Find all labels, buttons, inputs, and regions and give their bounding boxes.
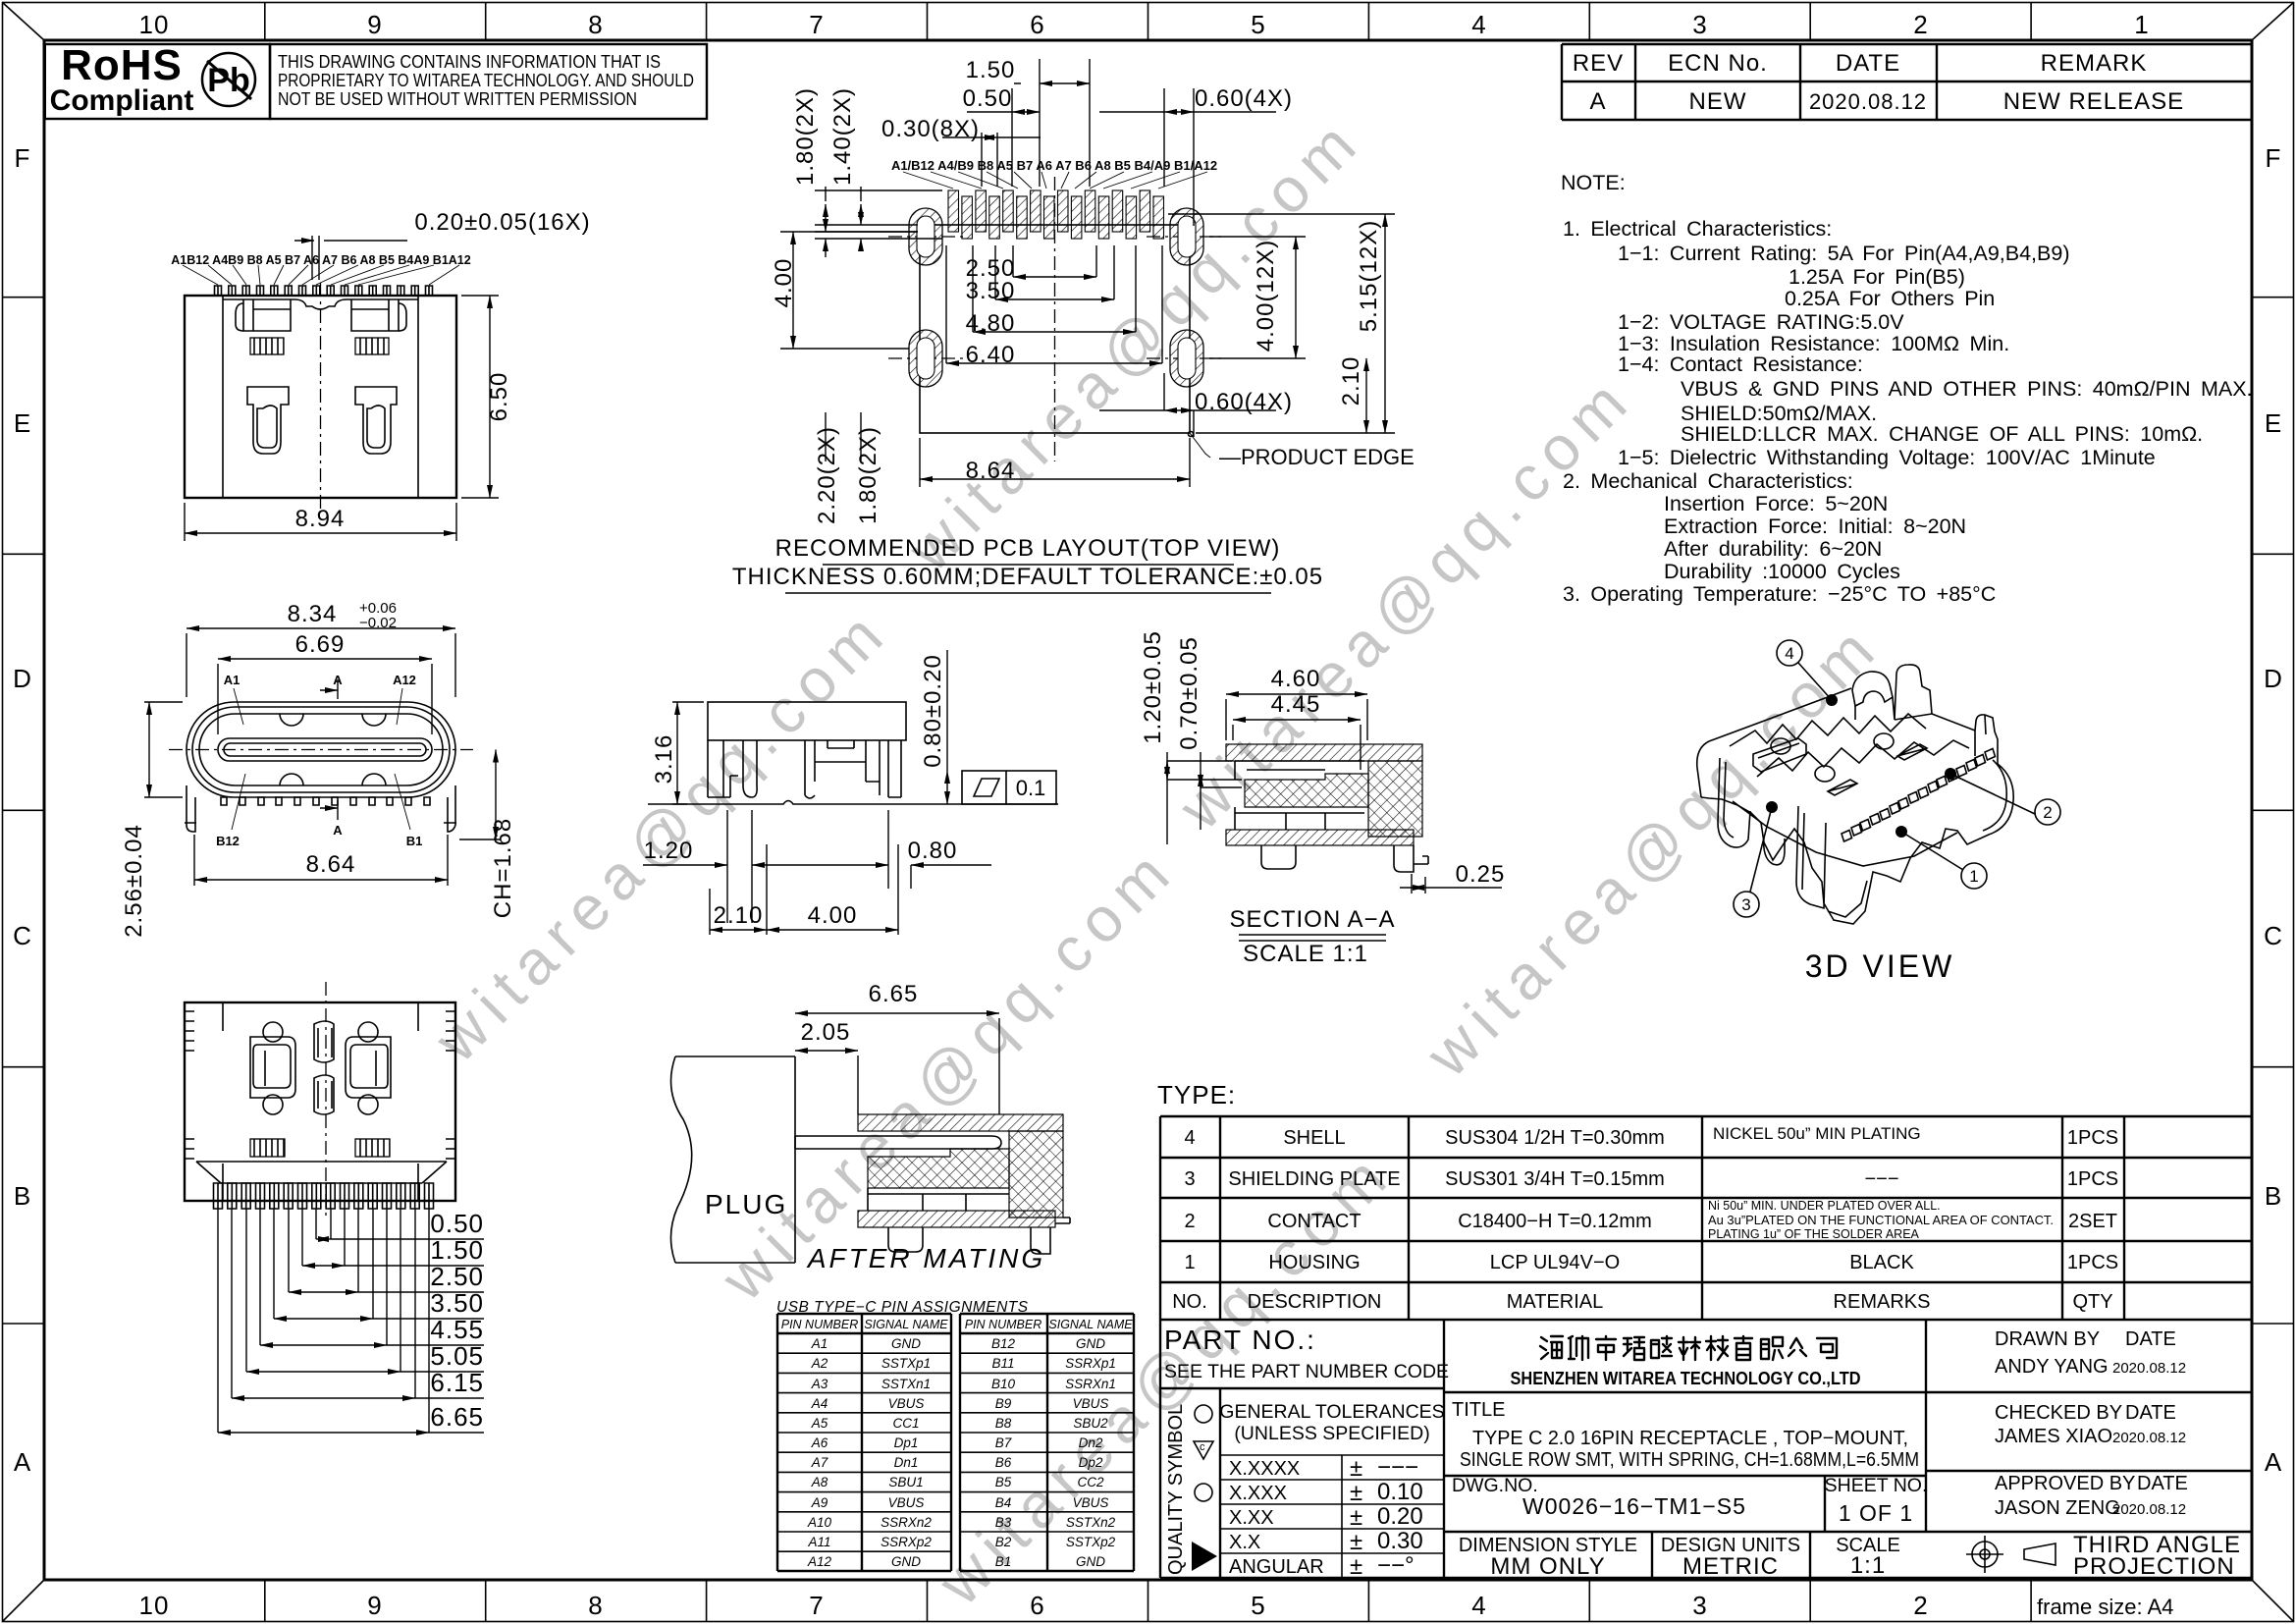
svg-text:B1: B1 [406,834,423,848]
svg-text:6.15: 6.15 [430,1368,484,1397]
svg-text:±: ± [1350,1455,1362,1482]
svg-text:SSTXn2: SSTXn2 [1066,1515,1116,1530]
svg-text:(UNLESS SPECIFIED): (UNLESS SPECIFIED) [1234,1423,1429,1444]
svg-text:6.65: 6.65 [869,981,919,1007]
svg-text:X.XX: X.XX [1229,1507,1274,1529]
svg-text:NEW RELEASE: NEW RELEASE [2003,88,2184,115]
svg-text:TYPE:: TYPE: [1157,1080,1236,1110]
svg-text:0.1: 0.1 [1016,776,1046,800]
svg-text:3.50: 3.50 [430,1288,484,1318]
svg-text:3: 3 [1184,1168,1195,1190]
svg-text:B8: B8 [995,1416,1012,1431]
svg-text:NOTE:: NOTE: [1561,171,1626,194]
svg-text:B12: B12 [216,834,240,848]
svg-text:SIGNAL NAME: SIGNAL NAME [864,1318,948,1331]
svg-text:1:1: 1:1 [1850,1552,1886,1579]
svg-text:SHENZHEN WITAREA TECHNOLOGY CO: SHENZHEN WITAREA TECHNOLOGY CO.,LTD [1511,1369,1861,1388]
svg-text:4.45: 4.45 [1271,691,1321,718]
svg-text:X.XXX: X.XXX [1229,1483,1287,1504]
svg-text:SSTXp2: SSTXp2 [1066,1535,1116,1549]
svg-text:1PCS: 1PCS [2067,1168,2118,1190]
svg-text:A11: A11 [807,1535,830,1549]
svg-text:A: A [14,1447,31,1477]
svg-text:NOT BE USED WITHOUT WRITTEN PE: NOT BE USED WITHOUT WRITTEN PERMISSION [278,89,637,109]
svg-text:TITLE: TITLE [1452,1399,1505,1421]
svg-text:2.56±0.04: 2.56±0.04 [121,824,147,938]
svg-text:CC1: CC1 [892,1416,919,1431]
svg-text:GND: GND [1076,1336,1105,1351]
svg-text:MATERIAL: MATERIAL [1507,1291,1604,1313]
svg-text:0.30: 0.30 [1377,1528,1423,1554]
svg-text:A6: A6 [811,1435,828,1450]
svg-text:SBU2: SBU2 [1073,1416,1108,1431]
svg-text:6: 6 [1030,10,1044,39]
svg-text:B2: B2 [995,1535,1012,1549]
svg-text:REV: REV [1573,50,1624,77]
svg-text:5.05: 5.05 [430,1341,484,1371]
svg-text:SHIELD:LLCR MAX. CHANGE OF ALL: SHIELD:LLCR MAX. CHANGE OF ALL PINS: 10m… [1681,422,2203,446]
svg-text:±: ± [1350,1553,1362,1580]
svg-text:1.80(2X): 1.80(2X) [855,426,881,524]
svg-text:±: ± [1350,1529,1362,1555]
svg-text:DATE: DATE [1836,50,1900,77]
svg-text:DESCRIPTION: DESCRIPTION [1248,1291,1382,1313]
svg-text:0.60(4X): 0.60(4X) [1195,85,1293,112]
svg-text:−−−: −−− [1377,1454,1418,1481]
svg-text:METRIC: METRIC [1682,1553,1779,1580]
svg-text:c: c [1200,1441,1205,1453]
svg-text:SBU1: SBU1 [888,1475,923,1489]
svg-text:DRAWN BY: DRAWN BY [1995,1328,2100,1350]
svg-text:A9: A9 [811,1495,828,1510]
svg-text:6: 6 [1030,1591,1044,1620]
svg-text:A5: A5 [811,1416,828,1431]
svg-text:VBUS: VBUS [1073,1495,1109,1510]
svg-text:8: 8 [588,1591,603,1620]
svg-text:SEE THE PART NUMBER CODE: SEE THE PART NUMBER CODE [1164,1361,1449,1382]
svg-text:−−−: −−− [1864,1168,1898,1190]
svg-text:CONTACT: CONTACT [1267,1211,1361,1232]
svg-text:1 OF 1: 1 OF 1 [1839,1500,1913,1526]
svg-text:D: D [2264,664,2283,693]
svg-text:1: 1 [1184,1252,1195,1273]
svg-text:0.20: 0.20 [1377,1503,1423,1530]
svg-text:Dp1: Dp1 [894,1435,919,1450]
svg-text:0.60(4X): 0.60(4X) [1195,389,1293,415]
svg-text:PLUG: PLUG [705,1189,787,1219]
svg-text:1PCS: 1PCS [2067,1127,2118,1149]
svg-text:2: 2 [2043,803,2052,822]
svg-text:1−2: VOLTAGE RATING:5.0V: 1−2: VOLTAGE RATING:5.0V [1618,310,1904,334]
svg-text:GND: GND [891,1336,921,1351]
svg-text:AFTER MATING: AFTER MATING [806,1243,1045,1273]
svg-text:A4: A4 [811,1396,828,1411]
svg-text:W0026−16−TM1−S5: W0026−16−TM1−S5 [1522,1493,1746,1519]
svg-text:SSRXn1: SSRXn1 [1065,1377,1116,1391]
svg-text:6.65: 6.65 [430,1402,484,1432]
svg-text:SUS301 3/4H T=0.15mm: SUS301 3/4H T=0.15mm [1445,1168,1665,1190]
svg-text:3: 3 [1692,1591,1707,1620]
svg-text:VBUS: VBUS [1073,1396,1109,1411]
svg-text:NO.: NO. [1172,1291,1207,1313]
svg-text:5.15(12X): 5.15(12X) [1356,220,1382,332]
svg-text:1: 1 [1969,867,1978,886]
svg-text:B11: B11 [991,1356,1014,1371]
svg-text:DATE: DATE [2125,1328,2176,1350]
svg-text:2.20(2X): 2.20(2X) [814,426,840,524]
svg-text:E: E [2265,408,2282,438]
svg-text:RoHS: RoHS [61,41,183,89]
svg-text:ECN No.: ECN No. [1668,50,1768,77]
svg-text:2: 2 [1913,1591,1928,1620]
svg-text:5: 5 [1251,1591,1265,1620]
svg-text:1.20±0.05: 1.20±0.05 [1140,630,1166,744]
svg-text:SHELL: SHELL [1283,1127,1345,1149]
svg-text:A12: A12 [393,673,416,687]
svg-text:PROJECTION: PROJECTION [2073,1553,2235,1580]
svg-text:3: 3 [1692,10,1707,39]
svg-text:6.69: 6.69 [295,631,346,658]
svg-text:ANDY YANG: ANDY YANG [1995,1356,2109,1378]
svg-text:2020.08.12: 2020.08.12 [2112,1501,2186,1518]
svg-text:4.00(12X): 4.00(12X) [1253,240,1279,352]
svg-text:A1/B12 A4/B9 B8 A5 B7 A6 A7 B6: A1/B12 A4/B9 B8 A5 B7 A6 A7 B6 A8 B5 B4/… [891,158,1217,173]
svg-text:0.50: 0.50 [430,1209,484,1238]
svg-text:8.64: 8.64 [306,851,356,878]
svg-text:9: 9 [367,1591,382,1620]
svg-text:4: 4 [1471,10,1486,39]
svg-text:4: 4 [1184,1127,1195,1149]
svg-text:SHEET NO.: SHEET NO. [1825,1475,1928,1496]
svg-text:B3: B3 [995,1515,1012,1530]
svg-text:PIN NUMBER: PIN NUMBER [965,1318,1041,1331]
svg-text:−−°: −−° [1377,1552,1415,1579]
svg-text:1.80(2X): 1.80(2X) [792,87,819,186]
svg-text:VBUS & GND PINS AND OTHER PINS: VBUS & GND PINS AND OTHER PINS: 40mΩ/PIN… [1681,377,2253,401]
svg-text:—PRODUCT EDGE: —PRODUCT EDGE [1219,445,1415,469]
svg-text:4.55: 4.55 [430,1315,484,1344]
svg-text:SSRXp1: SSRXp1 [1065,1356,1116,1371]
svg-text:CC2: CC2 [1077,1475,1103,1489]
svg-text:PROPRIETARY TO WITAREA TECHNOL: PROPRIETARY TO WITAREA TECHNOLOGY. AND S… [278,71,694,90]
svg-text:1.50: 1.50 [966,57,1016,83]
svg-text:HOUSING: HOUSING [1268,1252,1360,1273]
svg-text:2.10: 2.10 [714,902,764,929]
svg-text:7: 7 [809,1591,824,1620]
svg-text:PART NO.:: PART NO.: [1164,1325,1316,1355]
svg-text:2.05: 2.05 [801,1019,851,1046]
svg-text:0.80±0.20: 0.80±0.20 [920,654,946,768]
svg-text:SSTXp1: SSTXp1 [881,1356,931,1371]
svg-text:Insertion Force: 5~20N: Insertion Force: 5~20N [1664,492,1888,515]
svg-text:2.10: 2.10 [1338,356,1364,406]
svg-text:±: ± [1350,1480,1362,1506]
svg-text:A: A [2265,1447,2282,1477]
svg-text:1−4: Contact Resistance:: 1−4: Contact Resistance: [1618,352,1863,376]
svg-text:0.25: 0.25 [1456,861,1506,888]
svg-text:0.30(8X): 0.30(8X) [881,116,980,142]
svg-text:GND: GND [891,1554,921,1569]
svg-text:1−5: Dielectric Withstanding V: 1−5: Dielectric Withstanding Voltage: 10… [1618,446,2156,469]
svg-text:0.10: 0.10 [1377,1479,1423,1505]
svg-text:BLACK: BLACK [1849,1252,1914,1273]
svg-text:JASON ZENG: JASON ZENG [1995,1497,2120,1519]
svg-text:5: 5 [1251,10,1265,39]
svg-text:2: 2 [1913,10,1928,39]
svg-text:4.00: 4.00 [808,902,858,929]
svg-text:2.50: 2.50 [430,1262,484,1291]
svg-text:F: F [2266,143,2282,173]
svg-text:A12: A12 [807,1554,832,1569]
svg-text:DATE: DATE [2137,1473,2188,1494]
svg-text:SIGNAL NAME: SIGNAL NAME [1048,1318,1133,1331]
svg-text:Extraction Force: Initial: 8~2: Extraction Force: Initial: 8~20N [1664,514,1966,538]
svg-text:D: D [13,664,32,693]
svg-text:SSRXn2: SSRXn2 [881,1515,932,1530]
svg-text:9: 9 [367,10,382,39]
svg-text:REMARKS: REMARKS [1834,1291,1931,1313]
svg-text:10: 10 [139,1591,170,1620]
svg-text:±: ± [1350,1504,1362,1531]
svg-text:A: A [333,673,343,687]
svg-text:QUALITY SYMBOL: QUALITY SYMBOL [1165,1404,1187,1575]
svg-text:1−1: Current Rating: 5A For Pi: 1−1: Current Rating: 5A For Pin(A4,A9,B4… [1618,242,2070,265]
svg-text:1. Electrical Characteristics:: 1. Electrical Characteristics: [1563,217,1832,241]
svg-text:B7: B7 [995,1435,1012,1450]
svg-text:SSRXp2: SSRXp2 [881,1535,932,1549]
svg-text:A3: A3 [811,1377,828,1391]
svg-text:C: C [13,921,32,950]
svg-text:THICKNESS 0.60MM;DEFAULT TOLER: THICKNESS 0.60MM;DEFAULT TOLERANCE:±0.05 [732,564,1323,590]
svg-text:0.80: 0.80 [908,838,958,864]
svg-text:1.40(2X): 1.40(2X) [829,87,856,186]
svg-text:JAMES XIAO: JAMES XIAO [1995,1426,2112,1447]
svg-text:A: A [1589,88,1606,115]
svg-text:CHECKED BY: CHECKED BY [1995,1402,2122,1424]
svg-text:B1: B1 [995,1554,1012,1569]
svg-text:NEW: NEW [1689,88,1747,115]
svg-text:Compliant: Compliant [50,84,194,117]
svg-text:Ni 50u” MIN. UNDER PLATED OVER: Ni 50u” MIN. UNDER PLATED OVER ALL. [1708,1199,1941,1213]
svg-text:2. Mechanical Characteristics:: 2. Mechanical Characteristics: [1563,469,1853,493]
svg-text:4: 4 [1471,1591,1486,1620]
svg-text:A7: A7 [811,1455,828,1470]
svg-text:10: 10 [139,10,170,39]
svg-text:6.40: 6.40 [966,342,1016,368]
svg-text:APPROVED BY: APPROVED BY [1995,1473,2135,1494]
svg-text:B6: B6 [995,1455,1012,1470]
svg-text:0.70±0.05: 0.70±0.05 [1176,636,1202,750]
svg-text:After durability: 6~20N: After durability: 6~20N [1664,537,1882,561]
svg-text:8.34: 8.34 [288,601,338,627]
svg-text:8.94: 8.94 [295,506,346,532]
svg-text:ANGULAR: ANGULAR [1229,1556,1324,1578]
svg-text:3: 3 [1741,895,1750,914]
svg-text:VBUS: VBUS [888,1396,925,1411]
svg-text:B4: B4 [995,1495,1012,1510]
svg-text:8.64: 8.64 [966,458,1016,484]
svg-text:Durability :10000 Cycles: Durability :10000 Cycles [1664,560,1900,583]
svg-text:SECTION A−A: SECTION A−A [1229,906,1395,933]
svg-text:SHIELDING PLATE: SHIELDING PLATE [1228,1168,1400,1190]
svg-text:A10: A10 [807,1515,832,1530]
svg-text:B: B [2265,1181,2282,1211]
svg-text:4: 4 [1785,644,1793,663]
svg-text:3. Operating Temperature: −25°: 3. Operating Temperature: −25°C TO +85°C [1563,582,1996,606]
svg-text:SINGLE ROW SMT, WITH SPRING, C: SINGLE ROW SMT, WITH SPRING, CH=1.68MM,L… [1460,1449,1919,1471]
svg-text:GENERAL TOLERANCES: GENERAL TOLERANCES [1219,1401,1444,1423]
svg-text:Dp2: Dp2 [1079,1455,1103,1470]
svg-text:X.XXXX: X.XXXX [1229,1458,1300,1480]
svg-text:PLATING 1u” OF THE SOLDER AREA: PLATING 1u” OF THE SOLDER AREA [1708,1227,1920,1241]
svg-text:3.16: 3.16 [651,734,677,785]
svg-text:NICKEL 50u” MIN PLATING: NICKEL 50u” MIN PLATING [1713,1124,1921,1143]
svg-text:1.50: 1.50 [430,1235,484,1265]
svg-text:THIS DRAWING CONTAINS INFORMAT: THIS DRAWING CONTAINS INFORMATION THAT I… [278,52,661,72]
svg-text:SCALE 1:1: SCALE 1:1 [1243,941,1368,967]
svg-text:1: 1 [2134,10,2149,39]
svg-text:B5: B5 [995,1475,1012,1489]
svg-text:Dn2: Dn2 [1079,1435,1103,1450]
svg-text:7: 7 [809,10,824,39]
svg-text:B: B [14,1181,31,1211]
svg-text:A1: A1 [224,673,240,687]
svg-text:6.50: 6.50 [486,372,512,422]
svg-text:Au 3u”PLATED ON THE FUNCTIONAL: Au 3u”PLATED ON THE FUNCTIONAL AREA OF C… [1708,1214,2054,1227]
svg-text:0.25A For Others Pin: 0.25A For Others Pin [1785,287,1995,310]
svg-text:B12: B12 [991,1336,1016,1351]
svg-text:VBUS: VBUS [888,1495,925,1510]
svg-text:PIN NUMBER: PIN NUMBER [781,1318,858,1331]
svg-text:MM ONLY: MM ONLY [1490,1553,1605,1580]
svg-text:E: E [14,408,31,438]
svg-text:X.X: X.X [1229,1532,1260,1553]
svg-text:CH=1.68: CH=1.68 [490,818,516,918]
svg-text:4.60: 4.60 [1271,666,1321,692]
svg-text:1PCS: 1PCS [2067,1252,2118,1273]
svg-text:A8: A8 [811,1475,828,1489]
svg-text:SUS304 1/2H T=0.30mm: SUS304 1/2H T=0.30mm [1445,1127,1665,1149]
svg-text:2SET: 2SET [2068,1211,2117,1232]
svg-text:LCP UL94V−O: LCP UL94V−O [1490,1252,1621,1273]
svg-text:0.50: 0.50 [963,85,1013,112]
svg-text:2: 2 [1184,1211,1195,1232]
svg-text:1.25A For Pin(B5): 1.25A For Pin(B5) [1789,265,1965,289]
svg-text:Dn1: Dn1 [894,1455,919,1470]
svg-text:C18400−H T=0.12mm: C18400−H T=0.12mm [1458,1211,1652,1232]
svg-text:0.20±0.05(16X): 0.20±0.05(16X) [414,209,590,236]
svg-text:DATE: DATE [2125,1402,2176,1424]
svg-text:3D VIEW: 3D VIEW [1805,948,1955,984]
svg-text:2020.08.12: 2020.08.12 [2112,1360,2186,1377]
svg-text:F: F [15,143,31,173]
svg-text:RECOMMENDED PCB LAYOUT(TOP VIE: RECOMMENDED PCB LAYOUT(TOP VIEW) [775,535,1281,562]
svg-text:A2: A2 [811,1356,828,1371]
svg-text:A1: A1 [811,1336,828,1351]
svg-text:B9: B9 [995,1396,1012,1411]
svg-text:GND: GND [1076,1554,1105,1569]
svg-text:2020.08.12: 2020.08.12 [2112,1430,2186,1446]
svg-text:REMARK: REMARK [2041,50,2148,77]
svg-text:frame size: A4: frame size: A4 [2037,1595,2173,1619]
svg-text:C: C [2264,921,2283,950]
svg-text:B10: B10 [991,1377,1016,1391]
svg-text:QTY: QTY [2072,1291,2112,1313]
svg-text:8: 8 [588,10,603,39]
svg-text:SSTXn1: SSTXn1 [881,1377,931,1391]
svg-text:A: A [333,823,343,838]
svg-text:1.20: 1.20 [644,838,694,864]
svg-text:A1B12 A4B9 B8 A5 B7 A6 A7 B6 A: A1B12 A4B9 B8 A5 B7 A6 A7 B6 A8 B5 B4A9 … [171,253,470,267]
svg-text:2020.08.12: 2020.08.12 [1809,89,1927,114]
svg-text:TYPE C 2.0 16PIN RECEPTACLE ,: TYPE C 2.0 16PIN RECEPTACLE , TOP−MOUNT, [1472,1428,1908,1449]
